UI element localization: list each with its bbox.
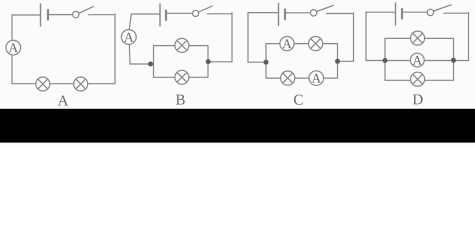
switch D pivot circle [427, 9, 433, 15]
wire D right side [468, 12, 470, 60]
ammeter letters (Liberation Serif glyph outlines) [9, 33, 422, 83]
node B left junction [148, 62, 153, 67]
wire C battery-to-switch [285, 12, 310, 14]
lamp D-L2 (bottom branch) [411, 72, 425, 86]
node D right junction [451, 58, 456, 63]
wire A switch-to-corner [89, 14, 116, 16]
wire D top-left segment [366, 11, 396, 13]
wire B top-left segment [132, 13, 161, 15]
battery C long plate [278, 4, 280, 26]
lamp A-L1 [36, 77, 50, 91]
switch A lever [79, 6, 94, 13]
wire A bottom [12, 83, 115, 85]
wire B switch-to-corner [208, 13, 233, 15]
wire B battery-to-switch [166, 12, 192, 14]
black censor bar [0, 109, 475, 143]
wire B left-dot link [130, 63, 154, 65]
wire D middle rail [366, 60, 469, 62]
wire A right side [114, 14, 116, 84]
paper background [0, 0, 475, 148]
ammeter C2 circle (bottom branch) [309, 71, 324, 86]
switch B lever [199, 6, 213, 12]
ammeter B1 letter [124, 33, 134, 42]
wire B right-dot link [208, 61, 232, 63]
wire D switch-to-corner [444, 12, 469, 14]
battery B short plate [165, 11, 167, 21]
lamp C-L1 (top branch) [309, 37, 323, 51]
lamp C-L2 (bottom branch) [281, 71, 295, 85]
wire C left side [247, 13, 249, 63]
label A [58, 96, 69, 106]
node B right junction [206, 59, 211, 64]
ammeter A1 letter [9, 43, 19, 52]
wire C left-dot link [248, 61, 266, 63]
lamp A-L2 [74, 77, 88, 91]
wire D bottom branch [385, 61, 454, 81]
battery D long plate [395, 3, 397, 25]
battery D short plate [401, 9, 403, 19]
wire A left side [11, 15, 13, 84]
switch A pivot circle [73, 11, 79, 17]
wire B right side [231, 13, 233, 62]
ammeter D1 letter [413, 56, 422, 65]
ammeter C1 circle (top branch) [280, 37, 294, 51]
lamp B-L1 (top branch) [175, 38, 189, 52]
node D left junction [383, 58, 388, 63]
ammeter C1 letter [282, 39, 291, 48]
switch C lever [317, 6, 334, 12]
wire A battery-to-switch [48, 14, 73, 16]
wire C parallel loop [266, 44, 338, 79]
wire D left side [365, 12, 367, 60]
lamp D-L1 (top branch) [411, 31, 425, 45]
wire D top branch [385, 38, 454, 60]
switch D lever [434, 5, 452, 11]
battery A long plate [40, 4, 42, 26]
wire A top-left segment [12, 14, 41, 16]
switch B pivot circle [193, 10, 199, 16]
ammeter A1 circle [6, 40, 21, 55]
wire B parallel loop [154, 46, 209, 78]
label D [413, 94, 423, 104]
option labels (Liberation Serif glyph outlines) [58, 94, 423, 105]
lamp B-L2 (bottom branch) [175, 70, 189, 84]
wire C top-left segment [248, 12, 279, 14]
switch C pivot circle [310, 10, 316, 16]
ammeter D1 circle (middle rail) [410, 53, 424, 67]
ammeter B1 circle [121, 30, 136, 45]
battery B long plate [159, 4, 161, 26]
battery C short plate [284, 10, 286, 20]
wire C switch-to-corner [327, 13, 354, 15]
ammeter C2 letter [312, 74, 321, 83]
label B [176, 95, 185, 105]
wire C right-dot link [338, 60, 354, 62]
wire C right side [353, 13, 355, 62]
node C left junction [264, 60, 269, 65]
node C right junction [335, 59, 340, 64]
wire B left side [129, 14, 131, 64]
label C [294, 95, 303, 105]
wire D battery-to-switch [402, 11, 427, 13]
battery A short plate [47, 10, 49, 20]
